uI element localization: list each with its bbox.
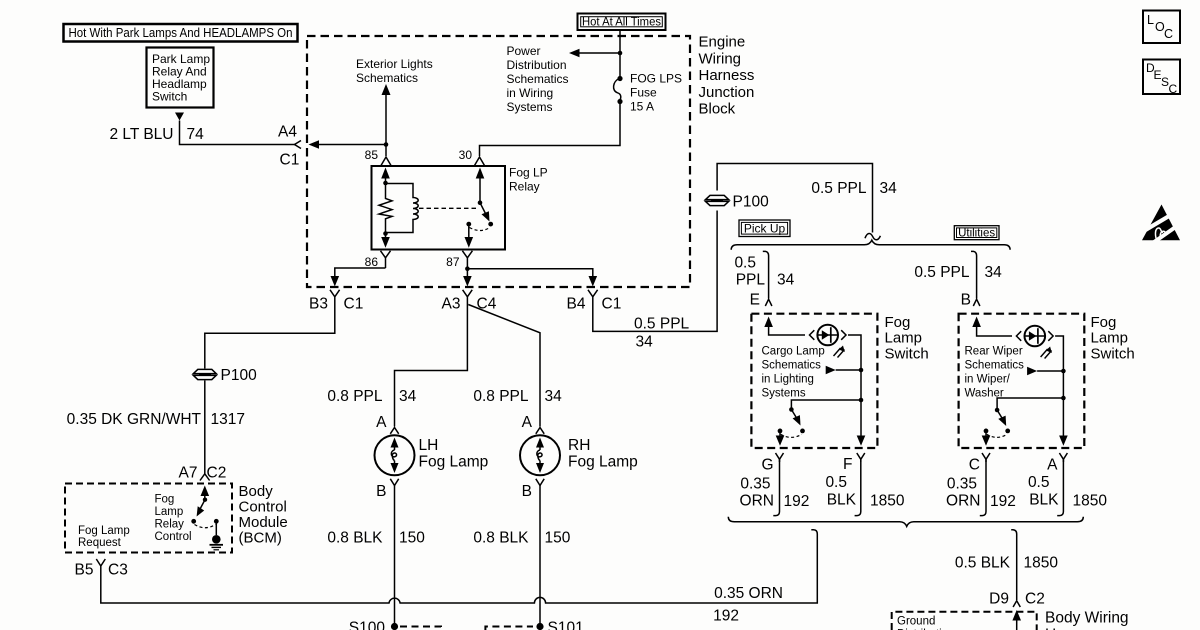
svg-text:LH: LH	[419, 437, 439, 454]
svg-text:Junction: Junction	[699, 84, 755, 101]
svg-text:Fog: Fog	[155, 494, 175, 506]
svg-text:B: B	[376, 483, 386, 500]
svg-text:BLK: BLK	[1029, 492, 1059, 509]
svg-text:Power: Power	[507, 44, 541, 58]
LED indicator (switch 1)	[817, 325, 838, 346]
svg-text:0.8 PPL: 0.8 PPL	[473, 388, 529, 405]
svg-text:in Wiring: in Wiring	[507, 86, 554, 100]
svg-text:F: F	[843, 456, 852, 473]
label Body Wiring Harness	[1045, 610, 1129, 630]
svg-text:Hot At All Times: Hot At All Times	[582, 15, 661, 29]
connector chevron right of LED (switch 1)	[841, 330, 846, 340]
wire D9 drop from brace	[1011, 530, 1017, 600]
svg-text:0.8 PPL: 0.8 PPL	[327, 388, 383, 405]
label Fog Lamp Relay Control	[155, 494, 192, 544]
svg-text:34: 34	[985, 264, 1003, 281]
pin 87 connector	[462, 251, 472, 269]
pin B3 C1 connector	[330, 290, 340, 303]
svg-text:in Wiper/: in Wiper/	[965, 374, 1011, 386]
svg-text:0.5: 0.5	[825, 474, 847, 491]
svg-text:C2: C2	[207, 465, 227, 482]
pin A7 C2 connector	[200, 474, 210, 481]
LED lightning symbol (switch 1)	[834, 346, 845, 358]
pin C connector	[982, 453, 990, 462]
svg-text:Fog: Fog	[1091, 314, 1117, 331]
svg-text:ORN: ORN	[946, 493, 980, 510]
switch 1 contact mechanism	[778, 407, 805, 437]
svg-text:Request: Request	[78, 537, 122, 549]
svg-text:87: 87	[446, 255, 460, 269]
LED lightning symbol (switch 2)	[1041, 347, 1052, 359]
wire B5 to brace: 0.35 ORN 192	[101, 530, 818, 603]
relay coil left leg with arrows	[381, 168, 390, 248]
svg-text:74: 74	[187, 126, 205, 143]
wire LED to right leg (switch 1)	[848, 335, 861, 444]
svg-text:Relay: Relay	[509, 179, 540, 193]
relay linkage dashed line	[419, 207, 478, 209]
svg-text:0.35 ORN: 0.35 ORN	[714, 585, 783, 602]
pin B4 C1 connector	[588, 290, 598, 303]
svg-text:A: A	[522, 414, 533, 431]
dashed box edge at S100	[400, 627, 441, 630]
svg-text:B3: B3	[309, 296, 328, 313]
label Rear Wiper Schematics in Wiper/Washer	[965, 346, 1025, 400]
svg-text:Switch: Switch	[1091, 345, 1135, 362]
engine wiring harness junction block dashed box	[307, 36, 690, 287]
pin B5 C3 connector	[96, 559, 105, 576]
label Fog Lamp Request	[78, 525, 130, 549]
label LH Fog Lamp	[419, 437, 489, 470]
wire LH lamp to S100	[394, 486, 396, 626]
wire from fuse to relay pin 30	[480, 103, 621, 156]
wire RH lamp to S101	[539, 486, 541, 626]
node: LED leg junction 2 (switch 1)	[859, 398, 864, 403]
switch 1 entry arrow	[764, 317, 805, 336]
wire pin 87 down to A3	[463, 269, 472, 287]
svg-text:15 A: 15 A	[630, 100, 654, 114]
svg-text:A7: A7	[179, 465, 198, 482]
pin A connector (switch 2)	[1059, 453, 1067, 462]
svg-text:A3: A3	[442, 296, 461, 313]
svg-text:Schematics: Schematics	[356, 71, 418, 85]
svg-text:0.35: 0.35	[740, 476, 770, 493]
pin A connector (RH lamp)	[536, 428, 544, 434]
switch 1 right leg arrow down to F	[857, 436, 866, 446]
svg-text:0.5: 0.5	[1028, 474, 1050, 491]
body control module BCM dashed box	[65, 484, 232, 553]
svg-text:ORN: ORN	[740, 493, 774, 510]
pin G connector	[776, 453, 784, 462]
svg-text:Schematics: Schematics	[507, 72, 569, 86]
wire from junction down to relay pin 85	[385, 145, 387, 157]
relay switch	[465, 168, 494, 248]
svg-text:S101: S101	[548, 620, 584, 630]
pin E connector	[765, 299, 772, 306]
label Ground Distribution	[897, 616, 955, 630]
pin 30 connector	[475, 157, 485, 166]
svg-text:L: L	[1147, 13, 1154, 27]
svg-text:Control: Control	[155, 531, 192, 543]
svg-text:Body: Body	[239, 483, 274, 500]
node: coil bottom junction	[383, 231, 388, 236]
svg-text:192: 192	[990, 493, 1016, 510]
svg-text:Block: Block	[699, 101, 736, 118]
node: junction at coil feed	[384, 142, 389, 147]
svg-text:C: C	[969, 457, 980, 474]
svg-text:PPL: PPL	[736, 272, 766, 289]
svg-text:C4: C4	[477, 296, 497, 313]
svg-text:Fog Lamp: Fog Lamp	[419, 453, 489, 470]
pin F connector	[857, 453, 865, 462]
svg-text:B4: B4	[567, 296, 586, 313]
splice S101	[536, 623, 543, 630]
label FOG LPS Fuse 15 A	[630, 72, 682, 114]
svg-text:Fog: Fog	[885, 314, 911, 331]
svg-text:C1: C1	[280, 152, 300, 169]
switch 1 wire down to G	[776, 431, 785, 446]
connector chevron left of LED (switch 2)	[1016, 331, 1021, 341]
wire from pin 86 to B3	[331, 268, 386, 287]
arrow to power distribution schematics	[569, 49, 620, 58]
label Cargo Lamp Schematics in Lighting Systems	[762, 346, 825, 400]
wire end squiggle above brace	[865, 233, 880, 239]
label box: Utilities	[954, 226, 999, 240]
wire A3 to RH fog lamp diagonal	[468, 305, 540, 427]
arrow to cargo lamp schematics (switch 1)	[826, 366, 861, 375]
pin B connector (RH lamp)	[536, 479, 544, 486]
LH fog lamp E1	[375, 435, 415, 475]
svg-text:(BCM): (BCM)	[239, 530, 282, 547]
svg-text:1850: 1850	[1024, 555, 1059, 572]
svg-text:Rear Wiper: Rear Wiper	[965, 346, 1023, 358]
ESD sensitive device symbol	[1142, 205, 1182, 244]
label Engine Wiring Harness Junction Block	[699, 34, 755, 118]
arrow up inside ground distribution box	[1012, 610, 1021, 630]
svg-text:192: 192	[713, 608, 739, 625]
svg-text:85: 85	[365, 148, 379, 162]
svg-text:Harness: Harness	[1045, 627, 1103, 630]
svg-text:Schematics: Schematics	[965, 360, 1025, 372]
label Body Control Module (BCM)	[239, 483, 288, 547]
resistor inside relay	[379, 183, 392, 234]
svg-text:BLK: BLK	[827, 492, 857, 509]
svg-text:A: A	[1047, 457, 1058, 474]
svg-text:Exterior Lights: Exterior Lights	[356, 57, 433, 71]
svg-text:0.35: 0.35	[947, 476, 977, 493]
pin B connector (LH lamp)	[390, 479, 398, 486]
svg-text:1850: 1850	[1073, 493, 1108, 510]
svg-text:Switch: Switch	[885, 345, 929, 362]
svg-text:2 LT BLU: 2 LT BLU	[109, 126, 173, 143]
brace splitting Pick Up / Utilities options	[731, 240, 1010, 250]
node: junction to power distribution arrow	[618, 51, 623, 56]
svg-text:C: C	[1164, 27, 1173, 41]
label box: Hot At All Times	[578, 14, 666, 31]
svg-text:30: 30	[459, 148, 473, 162]
arrow to rear wiper schematics (switch 2)	[1027, 367, 1063, 376]
svg-text:1317: 1317	[211, 411, 245, 428]
splice S100	[391, 623, 398, 630]
wire LED to right leg (switch 2)	[1055, 336, 1063, 444]
svg-text:in Lighting: in Lighting	[762, 374, 814, 386]
svg-text:FOG LPS: FOG LPS	[630, 72, 682, 86]
wire A3 to LH fog lamp	[395, 303, 468, 427]
brace joining grounds	[728, 517, 1083, 527]
wire to switch contact (switch 2)	[997, 398, 1063, 409]
DESC reference box	[1143, 60, 1180, 97]
connector chevron at A4	[295, 141, 302, 149]
wire option E branch	[763, 251, 769, 298]
svg-text:Lamp: Lamp	[885, 330, 923, 347]
svg-text:0.5 PPL: 0.5 PPL	[634, 316, 690, 333]
connector triangle from park lamp switch	[175, 113, 184, 121]
label Fog LP Relay	[509, 166, 548, 194]
svg-text:Lamp: Lamp	[1091, 330, 1129, 347]
node: LED leg junction 1 (switch 2)	[1061, 369, 1066, 374]
svg-text:B: B	[522, 483, 532, 500]
svg-text:Schematics: Schematics	[762, 360, 822, 372]
pin A3 C4 connector	[463, 290, 473, 303]
svg-text:192: 192	[784, 493, 810, 510]
switch 2 wire down to C	[982, 431, 991, 446]
svg-text:D9: D9	[989, 591, 1009, 608]
BCM fog lamp relay control switch	[191, 486, 218, 528]
svg-text:Module: Module	[239, 514, 288, 531]
svg-text:A4: A4	[278, 124, 297, 141]
label RH Fog Lamp	[568, 437, 638, 470]
node: LED leg junction 2 (switch 2)	[1061, 396, 1066, 401]
wire to switch contact (switch 1)	[791, 400, 861, 408]
svg-text:A: A	[376, 414, 387, 431]
wire B3 to P100 to BCM	[205, 303, 335, 474]
svg-text:C3: C3	[108, 562, 128, 579]
svg-text:0.5: 0.5	[734, 255, 756, 272]
pin 86 connector	[381, 251, 391, 268]
svg-text:86: 86	[365, 255, 379, 269]
connector P100 inline symbol (junction block)	[706, 195, 729, 205]
wire from Hot At All Times down	[619, 30, 621, 79]
wire G to brace	[773, 459, 779, 515]
node: coil top junction	[383, 181, 388, 186]
label box: Hot With Park Lamps And HEADLAMPS On	[64, 24, 298, 42]
arrow up to exterior lights schematics	[382, 84, 391, 144]
connector chevron right of LED (switch 2)	[1048, 331, 1053, 341]
svg-text:Fog Lamp: Fog Lamp	[78, 525, 130, 537]
ground distribution dashed box	[892, 612, 1037, 630]
switch 2 entry arrow	[972, 317, 1012, 337]
dashed box edge at S101	[485, 627, 533, 630]
switch 2 right leg arrow down to A	[1059, 436, 1068, 446]
wire C to brace	[980, 459, 986, 515]
svg-text:C1: C1	[344, 296, 364, 313]
svg-text:Distribution: Distribution	[507, 58, 567, 72]
svg-text:P100: P100	[733, 194, 770, 211]
svg-text:B: B	[961, 292, 971, 309]
svg-text:34: 34	[636, 334, 654, 351]
svg-text:Control: Control	[239, 499, 287, 516]
svg-text:Utilities: Utilities	[958, 227, 995, 239]
LED indicator (switch 2)	[1025, 326, 1046, 347]
svg-text:Relay: Relay	[155, 519, 185, 531]
label box: Pick Up	[739, 220, 790, 237]
wire pin 87 to B4	[467, 269, 597, 287]
svg-text:Wiring: Wiring	[699, 50, 742, 67]
svg-text:0.5 BLK: 0.5 BLK	[955, 555, 1011, 572]
svg-text:150: 150	[399, 530, 425, 547]
svg-text:E: E	[750, 292, 760, 309]
svg-text:C1: C1	[602, 296, 622, 313]
label Power Distribution Schematics in Wiring Systems	[507, 44, 569, 114]
svg-text:RH: RH	[568, 437, 590, 454]
svg-text:0.8 BLK: 0.8 BLK	[327, 530, 383, 547]
svg-text:150: 150	[545, 530, 571, 547]
svg-text:0.5 PPL: 0.5 PPL	[811, 180, 867, 197]
park lamp relay and headlamp switch block	[147, 48, 214, 108]
svg-text:34: 34	[880, 180, 898, 197]
arrow into A4 C1	[309, 140, 387, 149]
label Fog Lamp Switch (2)	[1091, 314, 1135, 362]
svg-text:P100: P100	[221, 367, 258, 384]
label Exterior Lights Schematics	[356, 57, 433, 85]
svg-text:Fog Lamp: Fog Lamp	[568, 453, 638, 470]
LOC reference box	[1143, 11, 1180, 44]
relay U1: fog LP relay box	[372, 166, 506, 250]
ground symbol inside BCM	[210, 521, 224, 550]
svg-text:34: 34	[545, 388, 563, 405]
svg-text:Lamp: Lamp	[155, 506, 184, 518]
svg-text:Engine: Engine	[699, 34, 746, 51]
svg-text:Harness: Harness	[699, 67, 755, 84]
svg-text:1850: 1850	[870, 493, 905, 510]
svg-text:Fuse: Fuse	[630, 86, 657, 100]
svg-text:0.8 BLK: 0.8 BLK	[473, 530, 529, 547]
svg-text:C: C	[1169, 82, 1178, 96]
svg-text:Fog LP: Fog LP	[509, 166, 548, 180]
wire B4 to P100 junction: 0.5 PPL	[593, 164, 873, 332]
wire option B branch	[971, 251, 977, 298]
connector P100 inline symbol	[193, 369, 216, 379]
wire: 2 LT BLU circuit 74	[180, 121, 297, 145]
inductor coil inside relay	[386, 184, 419, 233]
wire F to brace	[855, 459, 861, 515]
svg-text:B5: B5	[75, 562, 94, 579]
svg-text:Ground: Ground	[897, 616, 935, 628]
svg-text:34: 34	[399, 388, 417, 405]
svg-text:Hot With Park Lamps And HEADLA: Hot With Park Lamps And HEADLAMPS On	[69, 25, 293, 40]
connector chevron left of LED (switch 1)	[810, 330, 815, 340]
svg-text:34: 34	[777, 272, 795, 289]
svg-text:Cargo Lamp: Cargo Lamp	[762, 346, 825, 358]
svg-text:Systems: Systems	[762, 388, 806, 400]
RH fog lamp E2	[520, 435, 560, 475]
pin B connector (switch 2)	[973, 299, 980, 306]
svg-text:Systems: Systems	[507, 100, 553, 114]
switch 2 contact mechanism	[984, 408, 1011, 438]
wire A to brace	[1057, 459, 1063, 515]
pin A connector (LH lamp)	[390, 428, 398, 434]
fuse FOG LPS 15A	[614, 76, 623, 104]
fog lamp switch 1 dashed box	[751, 314, 877, 448]
svg-text:Body Wiring: Body Wiring	[1045, 610, 1129, 627]
node: junction below pin 87	[465, 266, 470, 271]
svg-text:C2: C2	[1025, 591, 1045, 608]
svg-text:0.35 DK GRN/WHT: 0.35 DK GRN/WHT	[67, 411, 202, 428]
svg-text:0.5 PPL: 0.5 PPL	[914, 264, 970, 281]
svg-text:Switch: Switch	[152, 90, 187, 104]
label Fog Lamp Switch (1)	[885, 314, 929, 362]
node: LED leg junction 1 (switch 1)	[859, 368, 864, 373]
svg-text:Pick Up: Pick Up	[744, 221, 786, 235]
svg-text:S100: S100	[349, 620, 386, 630]
pin 85 connector	[381, 157, 391, 166]
fog lamp switch 2 dashed box	[959, 314, 1085, 448]
pin D9 C2 connector	[1013, 601, 1020, 607]
svg-text:G: G	[761, 457, 773, 474]
